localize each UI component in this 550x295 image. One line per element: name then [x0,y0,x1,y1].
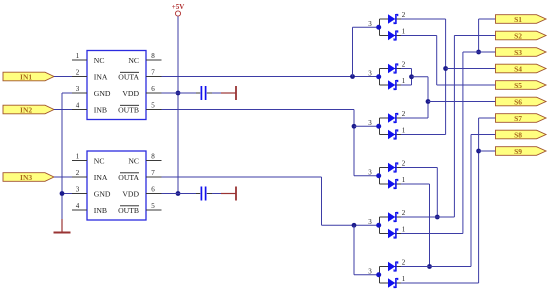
svg-text:IN1: IN1 [20,72,32,81]
svg-text:2: 2 [402,209,406,217]
svg-text:5: 5 [151,102,155,110]
U1 pin 5 stub [146,109,162,111]
port S6 [496,97,547,106]
dual diode pair D4 [380,168,402,185]
port S1 [496,15,547,24]
op-amp/driver IC U2 [87,151,146,220]
U2 pin 1 stub [72,160,87,162]
svg-text:2: 2 [76,69,80,77]
svg-text:S7: S7 [514,114,522,123]
wire to port S8 [471,134,496,136]
wire to port S5 [437,84,496,86]
wire capacitor C2 to ground bar [212,193,221,195]
wire D5 pin2 up to S2 [401,216,454,218]
svg-text:4: 4 [76,102,80,110]
wire to port S7 [479,117,496,119]
svg-text:S6: S6 [514,97,522,106]
svg-text:NC: NC [128,56,139,65]
svg-text:IN2: IN2 [20,105,32,114]
diode (pin 1) [388,179,395,189]
svg-text:NC: NC [94,156,105,165]
svg-text:1: 1 [76,153,80,161]
svg-text:S5: S5 [514,81,522,90]
svg-text:6: 6 [151,186,155,194]
svg-text:3: 3 [368,267,372,275]
svg-text:8: 8 [151,52,155,60]
node S3 junction [476,50,481,55]
wire OUTB U1 [162,109,355,111]
wire OUTA U1 to pair D2 [162,76,379,78]
wire D6 pin1 to S7/S9 vertical [401,282,479,284]
node pin3 of pair D3 [376,124,381,129]
svg-text:IN3: IN3 [20,173,32,182]
node OUTB1 branch [352,124,357,129]
U2 pin 3 stub [72,193,87,195]
dual diode pair D3 [380,118,402,135]
node VDD U2 [176,191,181,196]
U1 pin 1 stub [72,59,87,61]
wire D4 pin1 down to D6 pin2 row [401,183,430,185]
U2 pin 4 stub [72,209,87,211]
port S5 [496,81,547,90]
wire capacitor C1 to ground bar [212,92,221,94]
svg-text:3: 3 [368,69,372,77]
svg-text:NC: NC [94,56,105,65]
diode (pin 1) [388,31,395,41]
wire to port S2 [454,35,496,37]
svg-text:7: 7 [151,169,155,177]
wire VDD to capacitor C2 [162,193,197,195]
svg-text:7: 7 [151,69,155,77]
port IN3 [3,173,54,182]
port IN1 [3,72,54,81]
node S4 junction [443,66,448,71]
dual diode pair D2 [380,69,402,86]
diode (pin 1) [388,278,395,288]
node pin3 of pair D6 [376,272,381,277]
port S8 [496,130,547,139]
svg-text:+5V: +5V [172,3,185,11]
node D6 pin2 junction [427,264,432,269]
U2 pin 2 stub [72,176,87,178]
op-amp/driver IC U1 [87,51,146,120]
wire D2 out down to S6 [427,77,429,118]
svg-text:INA: INA [94,72,108,81]
wire D4 pin2 down to D5 pin2 [401,167,437,169]
wire D5 pin1 to S3 vertical [401,233,463,235]
wire OUTA U2 [162,176,322,178]
wire D3 pin1 joins S4 vertical [401,134,446,136]
svg-text:3: 3 [368,218,372,226]
node VDD U1 [176,91,181,96]
svg-text:1: 1 [76,52,80,60]
svg-text:3: 3 [368,119,372,127]
svg-text:1: 1 [402,77,406,85]
node OUTA1 branch [350,74,355,79]
port S3 [496,48,547,57]
U2 pin 6 stub [146,193,162,195]
svg-text:1: 1 [402,226,406,234]
diode (pin 2) [388,262,395,272]
wire to port S3 [463,51,496,53]
wire down to pair D6 [353,225,355,275]
wire +5V rail vertical [177,16,179,193]
diode (pin 1) [388,130,395,140]
dual diode pair D1 [380,19,402,36]
capacitor C1 [196,92,200,94]
svg-text:INB: INB [94,105,107,114]
svg-text:5: 5 [151,202,155,210]
ground bar (power port) for C2 [221,193,236,195]
node GND junction [60,191,65,196]
svg-text:2: 2 [402,110,406,118]
svg-text:INA: INA [94,173,108,182]
port IN2 [3,105,54,114]
svg-text:1: 1 [402,28,406,36]
U1 pin 7 stub [146,76,162,78]
svg-text:2: 2 [402,61,406,69]
diode (pin 2) [388,64,395,74]
U1 pin 6 stub [146,92,162,94]
svg-text:INB: INB [94,206,107,215]
wire down to pairs D3 D4 [353,110,355,176]
wire down to pair D5 [321,177,323,225]
wire IN3 to pin2 U2 [54,176,72,178]
svg-text:4: 4 [76,202,80,210]
U1 pin 8 stub [146,59,162,61]
svg-text:OUTA: OUTA [118,173,139,182]
wire IN1 to pin2 U1 [54,76,72,78]
svg-text:2: 2 [402,160,406,168]
svg-text:1: 1 [402,176,406,184]
wire D6 pin2 to S8 vertical [401,266,471,268]
dual diode pair D5 [380,217,402,234]
svg-text:2: 2 [402,259,406,267]
diode (pin 2) [388,14,395,24]
wire branch up to pair D1 [352,27,354,76]
svg-text:3: 3 [76,186,80,194]
svg-text:8: 8 [151,153,155,161]
wire S1 to S3 tie [478,19,480,52]
svg-text:VDD: VDD [122,89,139,98]
U1 pin 2 stub [72,76,87,78]
wire VDD to capacitor C1 [162,92,197,94]
dual diode pair D6 [380,267,402,284]
wire to port S9 [479,150,496,152]
U2 pin 7 stub [146,176,162,178]
svg-text:1: 1 [402,275,406,283]
wire IN2 to pin4 U1 [54,109,72,111]
node pin3 of pair D4 [376,173,381,178]
wire to port S4 [446,68,496,70]
svg-text:2: 2 [76,169,80,177]
node pin3 of pair D1 [376,25,381,30]
svg-text:S1: S1 [514,15,522,24]
U2 pin 5 stub [146,209,162,211]
svg-text:OUTB: OUTB [118,105,139,114]
wire to port S1 [479,18,496,20]
port S7 [496,114,547,123]
node D4-D5 junction [435,215,440,220]
svg-text:S9: S9 [514,147,522,156]
svg-text:GND: GND [94,189,111,198]
diode (pin 2) [388,113,395,123]
svg-text:6: 6 [151,85,155,93]
port S2 [496,31,547,40]
node pin3 of pair D5 [376,223,381,228]
svg-text:S2: S2 [514,31,522,40]
svg-text:OUTA: OUTA [118,72,139,81]
diode (pin 2) [388,163,395,173]
wire D2 output bracket [401,68,412,70]
wire D1 pin2 to S4 vertical [401,18,446,20]
svg-text:1: 1 [402,127,406,135]
svg-text:OUTB: OUTB [118,206,139,215]
node D2 common output [409,74,414,79]
ground symbol [61,219,63,232]
svg-text:3: 3 [368,168,372,176]
node OUTA2 branch [352,223,357,228]
svg-text:S4: S4 [514,64,522,73]
svg-text:2: 2 [402,11,406,19]
svg-text:GND: GND [94,89,111,98]
ground bar (power port) for C1 [221,92,236,94]
diode (pin 1) [388,80,395,90]
svg-text:S8: S8 [514,130,522,139]
svg-text:S3: S3 [514,48,522,57]
wire GND net [62,92,72,94]
wire D1 pin1 to S5 [401,35,437,37]
U1 pin 3 stub [72,92,87,94]
wire to port S6 [428,101,496,103]
capacitor C2 [196,193,200,195]
node S6 junction [426,99,431,104]
wire D3 pin2 [401,117,428,119]
svg-text:NC: NC [128,156,139,165]
diode (pin 1) [388,229,395,239]
svg-text:VDD: VDD [122,189,139,198]
U2 pin 8 stub [146,160,162,162]
node S9 junction [476,149,481,154]
diode (pin 2) [388,212,395,222]
port S4 [496,64,547,73]
port S9 [496,147,547,156]
svg-text:3: 3 [368,20,372,28]
node pin3 of pair D2 [376,74,381,79]
U1 pin 4 stub [72,109,87,111]
svg-text:3: 3 [76,85,80,93]
